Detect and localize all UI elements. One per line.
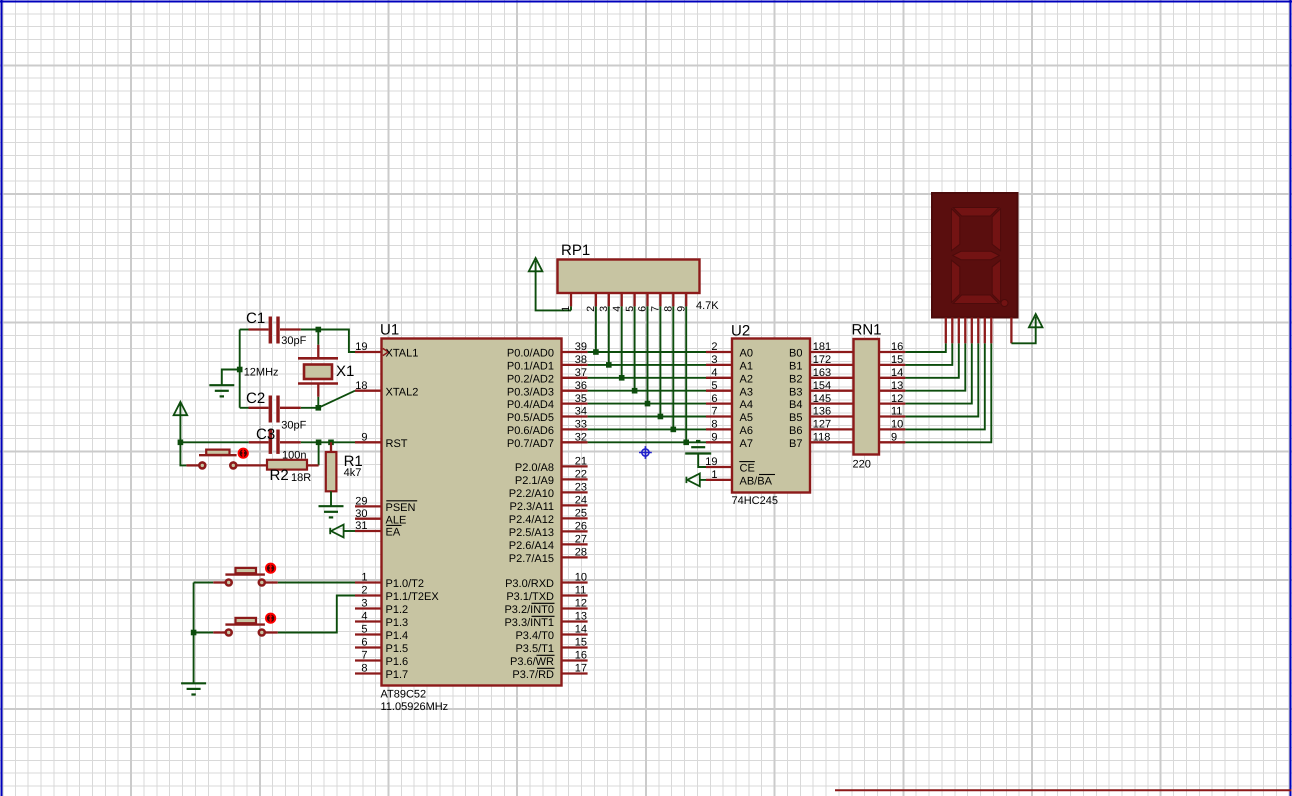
svg-text:XTAL2: XTAL2 — [386, 386, 419, 398]
wire RN1 pin 11 to display — [905, 343, 978, 416]
svg-text:4.7K: 4.7K — [696, 300, 719, 312]
wire XTAL2 diagonal — [318, 391, 355, 408]
svg-text:33: 33 — [575, 419, 587, 431]
U2 pin 12 B6 — [810, 428, 854, 430]
svg-text:29: 29 — [355, 496, 367, 508]
svg-text:28: 28 — [575, 547, 587, 559]
svg-text:14: 14 — [891, 367, 903, 379]
wire EA — [344, 530, 355, 532]
svg-text:19: 19 — [355, 341, 367, 353]
svg-text:3: 3 — [598, 306, 610, 312]
ground buttons — [181, 682, 206, 684]
junction P0.7 — [683, 440, 689, 446]
U1 pin 2 P1.1/T2EX — [355, 594, 382, 596]
junction P0.0 — [593, 349, 599, 355]
U1 pin 38 P0.1/AD1 — [562, 364, 588, 366]
svg-text:8: 8 — [663, 306, 675, 312]
wire RN1 pin 16 to display — [905, 343, 945, 352]
svg-text:9: 9 — [675, 306, 687, 312]
svg-text:P0.2/AD2: P0.2/AD2 — [507, 373, 554, 385]
svg-text:21: 21 — [575, 456, 587, 468]
svg-text:B0: B0 — [789, 348, 802, 360]
U2 pin 14 B4 — [810, 402, 854, 404]
svg-text:13: 13 — [575, 611, 587, 623]
svg-text:11: 11 — [575, 585, 586, 597]
svg-text:5: 5 — [361, 624, 367, 636]
wire button K1 to P1.0 — [278, 582, 355, 584]
wire left vertical buttons — [193, 583, 195, 684]
wire button K2 to P1.1 — [278, 596, 355, 633]
svg-text:2: 2 — [361, 585, 367, 597]
svg-text:31: 31 — [355, 520, 367, 532]
U2 pin 8 A6 — [706, 428, 732, 430]
U1 pin 30 ALE — [355, 518, 382, 520]
U1 pin 3 P1.2 — [355, 607, 382, 609]
svg-text:38: 38 — [575, 354, 587, 366]
svg-text:P3.6/WR: P3.6/WR — [510, 656, 554, 668]
RN1 pin 10 — [879, 428, 905, 430]
button K1 pin left — [213, 581, 226, 583]
wire P0.2 to U2 A2 — [588, 377, 706, 379]
U1 pin 28 P2.7/A15 — [562, 556, 588, 558]
svg-text:1: 1 — [560, 306, 572, 312]
svg-text:U1: U1 — [380, 322, 399, 339]
U1 pin 19 XTAL1 — [355, 351, 382, 353]
junction RST-R1 — [328, 440, 334, 446]
svg-text:15: 15 — [891, 354, 903, 366]
svg-text:9: 9 — [711, 432, 717, 444]
RN1 pin 16 — [879, 351, 905, 353]
wire P0.5 to U2 A5 — [588, 416, 706, 418]
svg-text:37: 37 — [575, 367, 587, 379]
svg-text:AT89C52: AT89C52 — [381, 688, 427, 700]
svg-text:B5: B5 — [789, 412, 802, 424]
U1 pin 13 P3.3/INT1 — [562, 620, 588, 622]
svg-text:18R: 18R — [291, 472, 311, 484]
capacitor C2 — [240, 407, 249, 409]
svg-text:B2: B2 — [789, 373, 802, 385]
svg-text:P1.0/T2: P1.0/T2 — [386, 578, 425, 590]
U1 pin 36 P0.3/AD3 — [562, 390, 588, 392]
wire to crystal ground — [222, 370, 240, 386]
U2 pin 9 A7 — [706, 441, 732, 443]
svg-text:118: 118 — [813, 432, 831, 444]
wire display common to power — [1011, 317, 1035, 344]
svg-text:12: 12 — [575, 598, 587, 610]
crystal X1 — [298, 357, 338, 360]
svg-text:P0.6/AD6: P0.6/AD6 — [507, 425, 554, 437]
U2 BA overline — [759, 474, 775, 476]
RP1 pin 7 — [659, 293, 661, 306]
svg-text:P2.1/A9: P2.1/A9 — [515, 475, 554, 487]
svg-text:136: 136 — [813, 406, 831, 418]
junction P0.1 — [606, 362, 612, 368]
ground crystal — [209, 384, 234, 386]
U1 pin 6 P1.5 — [355, 646, 382, 648]
U2 pin 4 A2 — [706, 377, 732, 379]
svg-text:P2.7/A15: P2.7/A15 — [509, 553, 554, 565]
svg-text:220: 220 — [853, 459, 871, 471]
svg-text:P3.1/TXD: P3.1/TXD — [506, 591, 554, 603]
junction 12MHz ground — [237, 367, 243, 373]
svg-text:11.05926MHz: 11.05926MHz — [381, 701, 449, 713]
svg-text:6: 6 — [361, 637, 367, 649]
svg-text:4: 4 — [611, 306, 623, 312]
wire RP1 pin 8 to P0.6 net — [672, 306, 674, 429]
svg-text:P1.5: P1.5 — [386, 643, 409, 655]
display common pin — [1010, 318, 1012, 344]
chip U2 74HC245 body — [732, 339, 810, 493]
junction P0.2 — [619, 375, 625, 381]
wire RN1 pin 14 to display — [905, 343, 958, 378]
wire AB/BA to input arrow — [700, 479, 706, 481]
button reset marker — [238, 448, 249, 459]
svg-text:30: 30 — [355, 508, 367, 520]
svg-text:2: 2 — [711, 341, 717, 353]
RN1 pin 12 — [879, 402, 905, 404]
U2 pin 2 A0 — [706, 351, 732, 353]
7-segment display body — [932, 193, 1018, 318]
svg-text:B1: B1 — [789, 361, 802, 373]
U1 pin 31 EA — [355, 530, 382, 532]
capacitor C3 — [249, 441, 269, 443]
svg-text:14: 14 — [575, 624, 587, 636]
svg-text:13: 13 — [891, 380, 903, 392]
wire P0.7 to U2 A7 — [588, 441, 706, 443]
wire R2 riser — [318, 442, 320, 465]
svg-text:74HC245: 74HC245 — [732, 495, 778, 507]
svg-text:34: 34 — [575, 406, 587, 418]
RN1 pin 13 — [879, 390, 905, 392]
wire left vertical C1-C2 — [239, 330, 241, 408]
svg-text:A1: A1 — [740, 361, 753, 373]
svg-text:P0.0/AD0: P0.0/AD0 — [507, 348, 554, 360]
ground CE (inverted) — [685, 452, 711, 454]
origin marker — [639, 446, 652, 459]
svg-text:7: 7 — [361, 650, 367, 662]
U1 pin 33 P0.6/AD6 — [562, 428, 588, 430]
power symbol RST — [174, 402, 188, 415]
U1 pin 35 P0.4/AD4 — [562, 402, 588, 404]
svg-text:C3: C3 — [256, 426, 275, 443]
U1 pin 39 P0.0/AD0 — [562, 351, 588, 353]
U2 pin 13 B5 — [810, 415, 854, 417]
component edge bottom right — [835, 789, 1292, 791]
7-segment segments — [951, 208, 1008, 307]
ground R1 — [319, 505, 344, 507]
svg-text:P2.5/A13: P2.5/A13 — [509, 527, 554, 539]
wire XTAL1 net — [318, 330, 355, 353]
U1 pin 34 P0.5/AD5 — [562, 415, 588, 417]
svg-text:P3.5/T1: P3.5/T1 — [515, 643, 554, 655]
power symbol RP1 — [529, 258, 543, 271]
U1 pin 14 P3.4/T0 — [562, 633, 588, 635]
display pin 4 — [964, 318, 966, 344]
button K2 pin left — [213, 631, 226, 633]
svg-text:P2.4/A12: P2.4/A12 — [509, 514, 554, 526]
svg-text:6: 6 — [637, 306, 649, 312]
svg-text:11: 11 — [891, 406, 902, 418]
wire crystal top lead — [317, 330, 319, 345]
svg-text:9: 9 — [361, 432, 367, 444]
U1 pin 26 P2.5/A13 — [562, 530, 588, 532]
display pin 1 — [945, 318, 947, 344]
wire RP1 pin 7 to P0.5 net — [659, 306, 661, 416]
svg-text:154: 154 — [813, 380, 831, 392]
svg-text:4: 4 — [361, 611, 367, 623]
power symbol display — [1029, 314, 1043, 327]
U1 pin 23 P2.2/A10 — [562, 491, 588, 493]
svg-text:7: 7 — [650, 306, 662, 312]
svg-text:2: 2 — [585, 306, 597, 312]
button reset — [199, 462, 205, 468]
button K2 marker — [265, 613, 276, 624]
U1 pin 17 P3.7/RD — [562, 672, 588, 674]
svg-text:18: 18 — [355, 380, 367, 392]
U1 pin 7 P1.6 — [355, 659, 382, 661]
U1 WR overline — [537, 654, 555, 656]
chip U1 AT89C52 body — [382, 339, 562, 686]
button K2 — [226, 630, 232, 636]
U2 pin 18 B0 — [810, 351, 854, 353]
clock marker XTAL1 — [383, 348, 389, 355]
U2 pin 5 A3 — [706, 390, 732, 392]
U1 pin 24 P2.3/A11 — [562, 504, 588, 506]
svg-text:6: 6 — [711, 393, 717, 405]
button K1 pin right — [265, 581, 278, 583]
svg-text:19: 19 — [705, 456, 717, 468]
svg-text:CE: CE — [740, 463, 755, 475]
svg-text:C1: C1 — [246, 310, 265, 327]
RN1 pin 9 — [879, 441, 905, 443]
display pin 8 — [990, 318, 992, 344]
U1 pin 11 P3.1/TXD — [562, 594, 588, 596]
junction P0.5 — [658, 414, 664, 420]
svg-text:PSEN: PSEN — [386, 502, 416, 514]
svg-text:A2: A2 — [740, 373, 753, 385]
RP1 pin 3 — [608, 293, 610, 306]
svg-text:10: 10 — [891, 419, 903, 431]
svg-text:P3.3/INT1: P3.3/INT1 — [504, 617, 554, 629]
wire RST to button — [180, 442, 186, 465]
RP1 pin 6 — [646, 293, 648, 306]
button K2 pin right — [265, 631, 278, 633]
svg-text:P1.6: P1.6 — [386, 656, 409, 668]
svg-text:35: 35 — [575, 393, 587, 405]
wire P0.3 to U2 A3 — [588, 390, 706, 392]
svg-text:C2: C2 — [246, 390, 265, 407]
svg-text:10: 10 — [575, 572, 587, 584]
svg-text:P2.0/A8: P2.0/A8 — [515, 462, 554, 474]
RP1 pin 5 — [633, 293, 635, 306]
wire P0.0 to U2 A0 — [588, 351, 706, 353]
svg-text:P3.4/T0: P3.4/T0 — [515, 630, 554, 642]
U2 pin 7 A5 — [706, 415, 732, 417]
U1 pin 21 P2.0/A8 — [562, 465, 588, 467]
svg-text:XTAL1: XTAL1 — [386, 348, 419, 360]
junction P0.6 — [671, 427, 677, 433]
svg-text:30pF: 30pF — [281, 419, 306, 431]
U1 pin 5 P1.4 — [355, 633, 382, 635]
U1 pin 29 PSEN — [355, 505, 382, 507]
RN1 pin 14 — [879, 377, 905, 379]
svg-text:P1.1/T2EX: P1.1/T2EX — [386, 591, 440, 603]
svg-text:P1.7: P1.7 — [386, 669, 409, 681]
svg-text:P0.5/AD5: P0.5/AD5 — [507, 412, 554, 424]
wire RST net — [180, 441, 248, 443]
RP1 pin 1 — [570, 293, 572, 306]
svg-text:4: 4 — [711, 367, 717, 379]
svg-text:17: 17 — [575, 663, 587, 675]
junction P0.3 — [632, 388, 638, 394]
resistor network RN1 body — [854, 339, 880, 455]
svg-text:32: 32 — [575, 432, 587, 444]
resistor pack RP1 body — [558, 260, 700, 294]
wire RN1 pin 12 to display — [905, 343, 971, 403]
svg-text:8: 8 — [361, 663, 367, 675]
svg-text:P1.4: P1.4 — [386, 630, 409, 642]
button K1 — [226, 580, 232, 586]
svg-text:15: 15 — [575, 637, 587, 649]
button reset pin left — [186, 464, 199, 466]
svg-text:AB/BA: AB/BA — [740, 476, 773, 488]
svg-text:RP1: RP1 — [561, 242, 590, 259]
U2 CE overline — [739, 461, 755, 463]
U1 pin 15 P3.5/T1 — [562, 646, 588, 648]
U2 pin 11 B7 — [810, 441, 854, 443]
svg-text:ALE: ALE — [386, 514, 407, 526]
U1 PSEN overline — [386, 500, 417, 502]
U2 pin 6 A4 — [706, 402, 732, 404]
U2 pin 1 AB/BA — [706, 479, 732, 481]
wire RP1 pin 4 to P0.2 net — [621, 306, 623, 377]
wire RP1 pin 2 to P0.0 net — [595, 306, 597, 352]
svg-text:36: 36 — [575, 380, 587, 392]
svg-text:7: 7 — [711, 406, 717, 418]
U1 INT0 overline — [532, 602, 555, 604]
svg-text:1: 1 — [361, 572, 367, 584]
U2 pin 16 B2 — [810, 377, 854, 379]
display pin 5 — [971, 318, 973, 344]
svg-text:12MHz: 12MHz — [244, 367, 279, 379]
RN1 pin 15 — [879, 364, 905, 366]
wire RP1 pin 9 to P0.7 net — [685, 306, 687, 442]
U1 pin 18 XTAL2 — [355, 390, 382, 392]
svg-text:R2: R2 — [270, 467, 289, 484]
display pin 3 — [958, 318, 960, 344]
svg-text:B6: B6 — [789, 425, 802, 437]
U1 pin 37 P0.2/AD2 — [562, 377, 588, 379]
U2 pin 19 CE — [706, 466, 732, 468]
svg-text:RN1: RN1 — [852, 322, 882, 339]
svg-text:A5: A5 — [740, 412, 753, 424]
svg-text:9: 9 — [891, 432, 897, 444]
svg-text:B4: B4 — [789, 399, 802, 411]
junction RST left — [178, 440, 184, 446]
svg-text:5: 5 — [711, 380, 717, 392]
U1 pin 25 P2.4/A12 — [562, 517, 588, 519]
junction XTAL1 net — [316, 327, 322, 333]
wire RN1 pin 10 to display — [905, 343, 984, 429]
svg-text:16: 16 — [891, 341, 903, 353]
svg-text:P0.7/AD7: P0.7/AD7 — [507, 438, 554, 450]
U1 pin 12 P3.2/INT0 — [562, 607, 588, 609]
svg-text:23: 23 — [575, 482, 587, 494]
svg-text:EA: EA — [386, 527, 401, 539]
svg-text:145: 145 — [813, 393, 831, 405]
svg-text:A4: A4 — [740, 399, 753, 411]
svg-text:U2: U2 — [731, 323, 750, 340]
svg-text:P1.3: P1.3 — [386, 617, 409, 629]
svg-text:P2.6/A14: P2.6/A14 — [509, 540, 554, 552]
wire RP1 pin1 to power — [536, 261, 571, 311]
terminal arrow EA — [329, 528, 331, 534]
svg-text:P2.2/A10: P2.2/A10 — [509, 488, 554, 500]
svg-text:181: 181 — [813, 341, 831, 353]
svg-text:A3: A3 — [740, 386, 753, 398]
svg-text:A6: A6 — [740, 425, 753, 437]
wire P0.6 to U2 A6 — [588, 428, 706, 430]
svg-text:B3: B3 — [789, 386, 802, 398]
svg-text:4k7: 4k7 — [344, 467, 362, 479]
capacitor C1 — [240, 329, 249, 331]
U1 pin 8 P1.7 — [355, 672, 382, 674]
RP1 pin 2 — [595, 293, 597, 306]
svg-text:A7: A7 — [740, 438, 753, 450]
wire button2 net left — [194, 632, 214, 634]
svg-text:X1: X1 — [336, 363, 354, 380]
U1 EA overline — [386, 524, 401, 526]
svg-text:P2.3/A11: P2.3/A11 — [510, 501, 554, 513]
RP1 pin 8 — [672, 293, 674, 306]
svg-text:P0.1/AD1: P0.1/AD1 — [507, 361, 554, 373]
svg-text:B7: B7 — [789, 438, 802, 450]
svg-text:3: 3 — [711, 354, 717, 366]
wire P0.1 to U2 A1 — [588, 364, 706, 366]
svg-text:P3.2/INT0: P3.2/INT0 — [504, 604, 554, 616]
U1 pin 4 P1.3 — [355, 620, 382, 622]
U1 pin 27 P2.6/A14 — [562, 543, 588, 545]
RP1 pin 4 — [621, 293, 623, 306]
button K1 marker — [265, 563, 276, 574]
svg-text:5: 5 — [624, 306, 636, 312]
svg-text:A0: A0 — [740, 348, 753, 360]
svg-text:8: 8 — [711, 419, 717, 431]
svg-text:16: 16 — [575, 650, 587, 662]
RP1 pin 9 — [685, 293, 687, 306]
svg-text:39: 39 — [575, 341, 587, 353]
display pin 2 — [951, 318, 953, 344]
svg-text:P1.2: P1.2 — [386, 604, 409, 616]
junction button K2 — [191, 630, 197, 636]
resistor R1 — [330, 442, 332, 452]
svg-text:P3.7/RD: P3.7/RD — [512, 669, 554, 681]
wire RN1 pin 15 to display — [905, 343, 952, 365]
svg-text:RST: RST — [386, 438, 408, 450]
U1 pin 16 P3.6/WR — [562, 659, 588, 661]
terminal arrow AB/BA — [685, 477, 687, 483]
junction P0.4 — [645, 401, 651, 407]
wire RP1 pin 6 to P0.4 net — [647, 306, 649, 403]
svg-text:27: 27 — [575, 534, 587, 546]
svg-text:26: 26 — [575, 521, 587, 533]
svg-text:1: 1 — [711, 469, 717, 481]
wire RN1 pin 9 to display — [905, 343, 991, 442]
svg-text:P3.0/RXD: P3.0/RXD — [505, 578, 554, 590]
svg-text:163: 163 — [813, 367, 831, 379]
U2 pin 17 B1 — [810, 364, 854, 366]
svg-text:P0.3/AD3: P0.3/AD3 — [507, 386, 554, 398]
